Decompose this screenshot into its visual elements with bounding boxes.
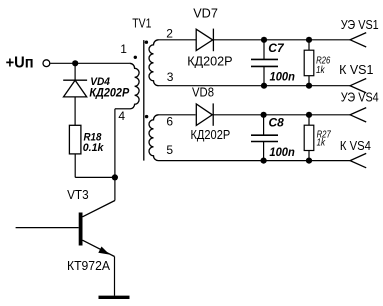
wire pin2 to VD7: [159, 39, 196, 41]
svg-text:100n: 100n: [270, 72, 295, 84]
wire pin6 to VD8: [159, 114, 196, 116]
ground: [99, 296, 130, 299]
wire K VS4 line: [159, 160, 351, 162]
capacitor C8 top plate: [251, 134, 278, 136]
node R26 bottom dot: [306, 83, 312, 89]
wire VD8 to UE VS4 terminal: [213, 114, 350, 116]
wire VD4 anode to R18: [74, 97, 76, 125]
svg-text:100n: 100n: [269, 147, 294, 159]
node R27 top dot: [306, 112, 312, 118]
wire R27 bottom stub: [308, 151, 310, 161]
svg-text:+Uп: +Uп: [6, 54, 34, 71]
wire VD7 to UE VS1 terminal: [214, 39, 351, 41]
diode VD8 cathode bar: [212, 103, 214, 125]
wire node to collector: [114, 177, 116, 200]
transformer TV1 primary winding: [130, 63, 140, 109]
terminal circle +Un: [43, 60, 50, 67]
transformer TV1 secondary winding 1: [149, 40, 159, 86]
svg-text:6: 6: [166, 115, 173, 129]
node R27 bottom dot: [306, 158, 312, 164]
wire R26 top stub: [308, 40, 310, 50]
wire C7 top: [263, 40, 265, 60]
svg-text:TV1: TV1: [132, 16, 151, 31]
capacitor C7 top plate: [251, 58, 278, 60]
capacitor C8 bottom plate: [251, 141, 278, 143]
transformer TV1 secondary winding 2: [149, 115, 159, 161]
diode VD7 triangle: [196, 29, 213, 50]
wire C8 bottom: [263, 142, 265, 161]
svg-text:5: 5: [166, 143, 173, 157]
diode VD4 triangle: [64, 80, 87, 97]
transistor VT3 emitter lead: [83, 240, 115, 256]
wire R18 bottom down: [74, 154, 76, 178]
svg-text:КД202Р: КД202Р: [187, 53, 232, 68]
svg-text:1: 1: [120, 42, 127, 56]
resistor R27: [304, 125, 314, 150]
terminal UE VS1 chevron: [350, 33, 366, 47]
svg-text:1k: 1k: [316, 65, 325, 76]
svg-text:1k: 1k: [317, 137, 326, 148]
node collector junction dot: [112, 174, 118, 180]
wire transformer pin4 horizontal: [115, 108, 130, 110]
diode VD8 triangle: [196, 104, 212, 125]
wire C7 bottom: [263, 66, 265, 85]
svg-text:VD7: VD7: [193, 6, 218, 21]
terminal K VS1 chevron: [350, 79, 366, 93]
terminal UE VS4 chevron: [350, 108, 366, 122]
wire base lead: [16, 227, 79, 229]
svg-text:VT3: VT3: [67, 187, 89, 202]
node C8 bottom dot: [261, 158, 267, 164]
transistor VT3 emitter arrow: [98, 247, 109, 255]
node junction dot at VD4 top: [72, 60, 78, 66]
wire +Un to transformer pin1: [50, 62, 129, 64]
svg-text:4: 4: [118, 109, 125, 123]
transformer TV1 core: [143, 40, 145, 161]
wire C8 top: [263, 115, 265, 135]
transformer secondary2 polarity dot: [145, 115, 148, 118]
diode VD7 cathode bar: [212, 29, 214, 52]
wire emitter to ground: [114, 257, 116, 296]
svg-text:КД202Р: КД202Р: [191, 127, 231, 142]
svg-text:VD8: VD8: [192, 84, 214, 99]
node C8 top dot: [261, 112, 267, 118]
transistor VT3 collector lead: [83, 201, 115, 217]
node C7 top dot: [261, 37, 267, 43]
wire junction to VD4 cathode: [74, 63, 76, 80]
svg-text:КТ972А: КТ972А: [67, 258, 110, 273]
node R26 top dot: [306, 37, 312, 43]
transformer primary polarity dot: [134, 56, 137, 59]
capacitor C7 bottom plate: [251, 65, 278, 67]
diode VD4 cathode bar: [63, 79, 87, 81]
wire R26 bottom stub: [308, 76, 310, 86]
svg-text:C7: C7: [268, 41, 285, 55]
svg-text:VD4: VD4: [90, 76, 110, 88]
svg-text:2: 2: [166, 27, 173, 41]
transformer secondary1 polarity dot: [145, 41, 148, 44]
svg-text:К VS1: К VS1: [339, 62, 373, 77]
terminal K VS4 chevron: [350, 153, 366, 167]
wire pin4 down to collector node: [114, 109, 116, 178]
wire K VS1 line: [159, 85, 351, 87]
resistor R26: [304, 50, 314, 75]
transistor VT3 base bar: [79, 213, 83, 246]
resistor R18: [69, 125, 81, 154]
node C7 bottom dot: [261, 83, 267, 89]
wire R27 top stub: [308, 115, 310, 125]
svg-text:C8: C8: [269, 116, 285, 130]
svg-text:3: 3: [167, 70, 174, 84]
svg-text:К VS4: К VS4: [340, 138, 371, 153]
svg-text:КД202Р: КД202Р: [89, 88, 129, 100]
wire R18 to collector node: [75, 176, 115, 178]
svg-text:УЭ VS1: УЭ VS1: [341, 17, 379, 32]
svg-text:УЭ VS4: УЭ VS4: [341, 89, 379, 104]
svg-text:0.1k: 0.1k: [83, 142, 105, 154]
